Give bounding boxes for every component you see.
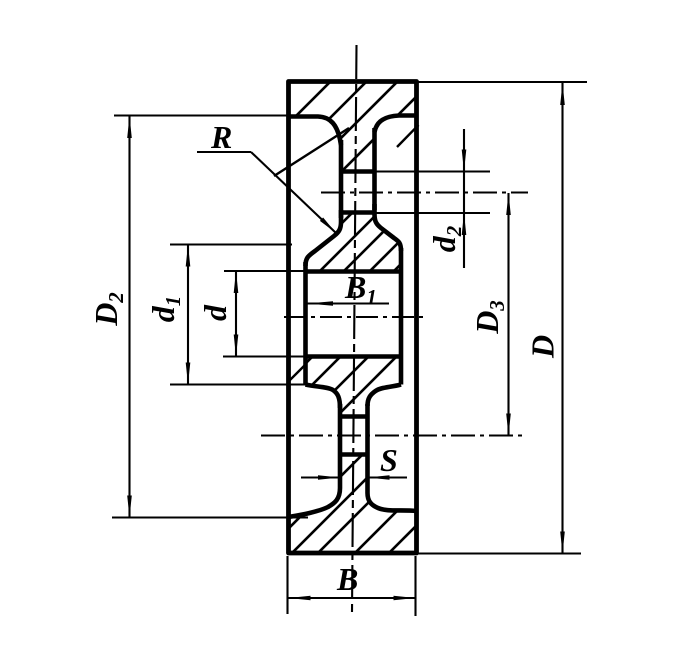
R leader underline xyxy=(197,151,251,153)
S arrow left pointing right xyxy=(318,475,340,480)
D top extension line xyxy=(418,81,587,83)
D bottom extension line xyxy=(418,552,581,554)
bore bottom edge xyxy=(306,354,402,359)
bottom hole upper edge xyxy=(340,414,368,419)
top hole lower edge xyxy=(341,210,375,215)
d arrow down xyxy=(234,335,239,357)
D dimension line xyxy=(561,83,563,554)
bore top edge xyxy=(306,269,402,274)
B1 arrow left xyxy=(307,301,333,306)
d dimension line xyxy=(235,271,237,357)
B right extension line xyxy=(414,556,416,616)
horizontal axis centerline xyxy=(284,316,427,318)
bottom hole axis centerline xyxy=(261,434,526,436)
S arrow right pointing left xyxy=(368,475,390,480)
R leader diagonal xyxy=(251,152,336,233)
svg-text:d2: d2 xyxy=(426,225,466,252)
top rim inner face right xyxy=(375,116,417,133)
hatch web below top hole and hub top band xyxy=(285,205,460,280)
D arrow up xyxy=(560,83,565,105)
d2 lower extension line xyxy=(375,212,491,214)
D3 dimension line xyxy=(507,193,509,436)
B left extension line xyxy=(286,556,288,614)
bottom hole lower edge xyxy=(340,452,368,457)
top rim inner face left xyxy=(289,117,342,146)
d2 arrow upper (outside pointing down) xyxy=(462,150,467,172)
hatch hub bottom band and web above bottom hole xyxy=(244,350,403,425)
hub bottom to web right xyxy=(368,385,402,407)
d1 arrow down xyxy=(186,363,191,385)
top hole upper edge xyxy=(341,169,375,174)
svg-text:D3: D3 xyxy=(469,300,509,335)
D2 dimension line xyxy=(128,116,130,518)
stray hatch line left of hub xyxy=(288,364,306,382)
web to hub flare left xyxy=(306,210,342,266)
D2 top extension line xyxy=(114,114,296,116)
svg-text:d: d xyxy=(197,304,233,321)
S left measuring line xyxy=(301,476,340,478)
hub right edge xyxy=(399,248,404,385)
B arrow left xyxy=(289,596,311,601)
svg-text:B: B xyxy=(336,561,358,597)
web left edge top xyxy=(339,140,344,218)
hatch top rim band and upper web xyxy=(232,75,438,180)
d bottom extension line xyxy=(223,355,308,357)
B arrow right xyxy=(394,596,416,601)
bottom web to rim flare left xyxy=(289,488,341,517)
svg-text:B1: B1 xyxy=(344,269,377,309)
web left edge bottom xyxy=(338,404,343,488)
B1 dimension line xyxy=(307,302,389,304)
hatch bottom web and bottom rim band xyxy=(257,445,527,560)
D2 arrow down xyxy=(127,496,132,518)
web to hub flare right xyxy=(375,204,402,251)
bottom web to rim flare right xyxy=(368,493,417,511)
D3 arrow down xyxy=(506,414,511,436)
S right measuring line xyxy=(368,476,408,478)
d2 upper extension line xyxy=(375,170,491,172)
stray hatch line top right pocket xyxy=(397,125,419,147)
web right edge bottom xyxy=(365,404,370,493)
D2 arrow up xyxy=(127,116,132,138)
svg-text:S: S xyxy=(380,442,398,478)
wheel outer rectangle outline xyxy=(289,82,417,554)
B dimension line xyxy=(289,597,416,599)
hub bottom to web left xyxy=(306,385,341,409)
web right edge top xyxy=(372,128,377,210)
d1 dimension line xyxy=(187,245,189,385)
d1 top extension line xyxy=(170,243,292,245)
d arrow up xyxy=(234,271,239,293)
d top extension line xyxy=(224,270,305,272)
d1 bottom extension line xyxy=(170,383,308,385)
D arrow down xyxy=(560,532,565,554)
stray hatch line top left pocket xyxy=(274,128,349,176)
svg-text:D: D xyxy=(525,335,561,359)
svg-text:D2: D2 xyxy=(88,292,128,327)
vertical centerline xyxy=(352,45,357,612)
D3 arrow up xyxy=(506,193,511,215)
d1 arrow up xyxy=(186,245,191,267)
d2 dimension line xyxy=(463,129,465,268)
D2 bottom extension line xyxy=(112,516,308,518)
top hole axis centerline xyxy=(321,191,528,193)
hub left edge xyxy=(303,262,308,385)
svg-text:d1: d1 xyxy=(145,296,185,323)
svg-text:R: R xyxy=(210,119,232,155)
d2 arrow lower (outside pointing up) xyxy=(462,213,467,235)
R leader arrowhead xyxy=(320,218,336,234)
